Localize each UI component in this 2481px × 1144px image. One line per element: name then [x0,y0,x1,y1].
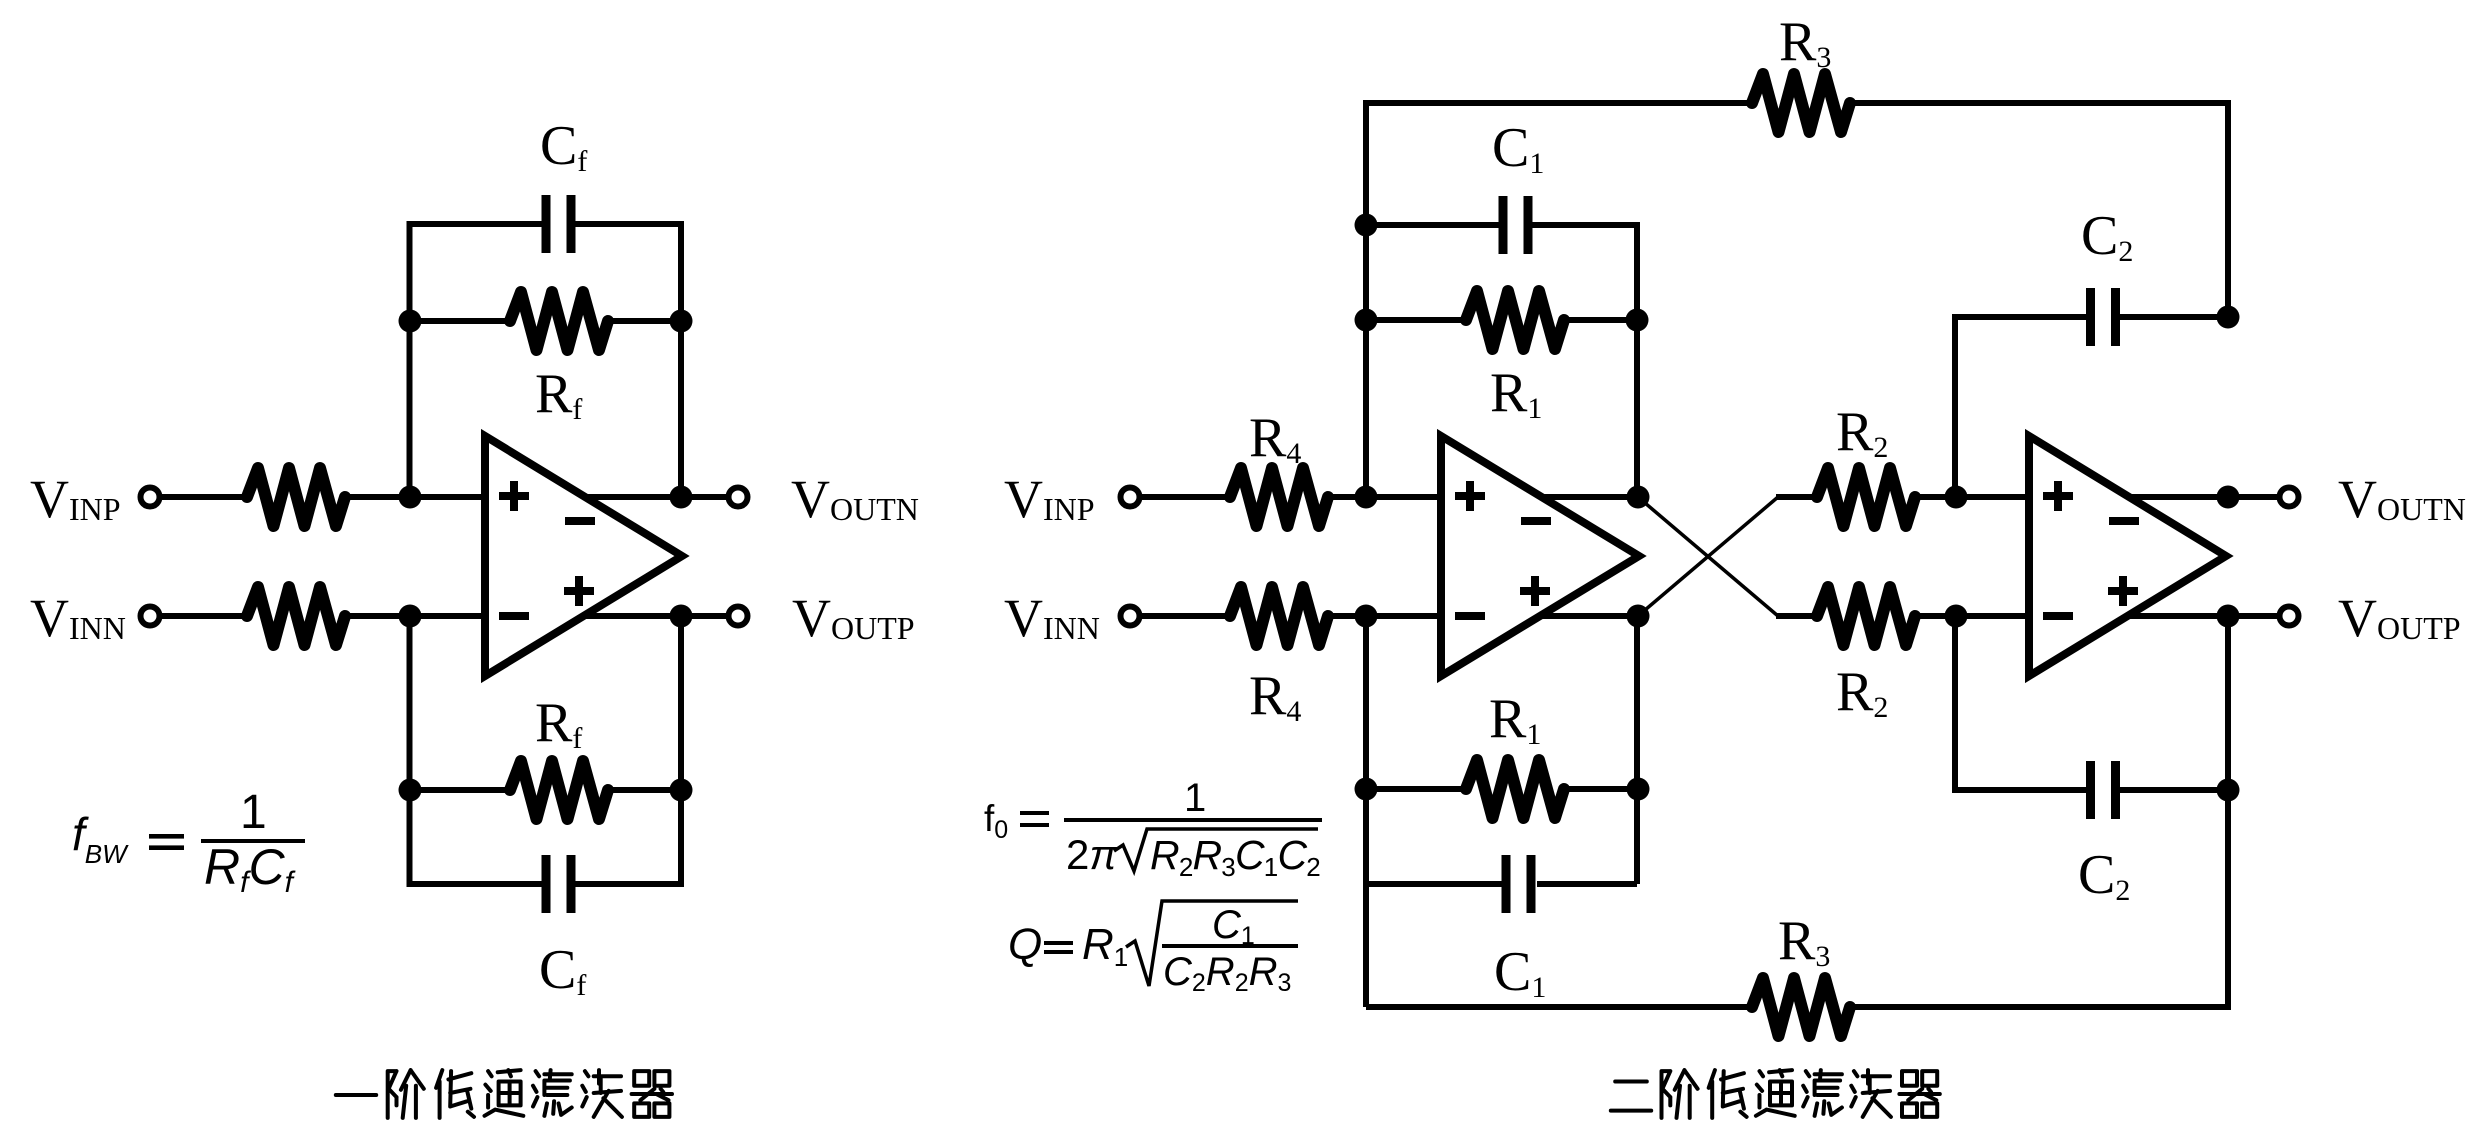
wire R4 top to op-amp [1328,494,1442,500]
op-amp U3 (right circuit second stage) [2029,436,2226,676]
formula f0 fraction bar [1064,818,1322,822]
terminal VOUTN (left) [729,488,748,507]
node input N junction [399,605,422,628]
plus output U1 [564,576,594,606]
capacitor Cf (top) [542,195,551,253]
wire VINN input (left circuit) [161,613,247,619]
formula fBW fraction bar [201,839,305,843]
svg-text:C2R2R3: C2R2R3 [1163,950,1291,997]
wire R2 top row [1776,494,1819,500]
plus output U3 [2108,576,2138,606]
wire U1 output N [583,494,727,500]
wire top feedback loop left/right verticals and cap row [410,224,543,497]
wire input P to op-amp [345,494,486,500]
node R4 top junction [1355,486,1378,509]
wire input N to op-amp [345,613,486,619]
node R1 top left [1355,309,1378,332]
capacitor C1 top [1499,196,1508,254]
plus output U2 [1520,576,1550,606]
wire R3 top loop [1366,103,1752,225]
op-amp U1 (left circuit) [485,436,682,676]
resistor R1 top [1466,291,1564,349]
node R1 top right [1626,309,1649,332]
node Rf top left [399,310,422,333]
node R2 top right [1945,486,1968,509]
resistor R2 top [1817,468,1915,526]
wire bottom feedback resistor row [410,787,513,793]
wire U3 output P [2126,613,2279,619]
terminal VINP (right) [1121,488,1140,507]
node R1 bottom left [1355,778,1378,801]
node R2 bottom right [1945,605,1968,628]
op-amp U2 (right circuit first stage) [1441,436,1639,676]
svg-text:2π: 2π [1066,831,1118,878]
resistor R4 bottom [1230,587,1328,645]
minus output U1 [565,517,595,525]
resistor R3 top [1752,74,1850,132]
formula Q fraction bar [1162,944,1298,948]
wire VINN input (right) [1141,613,1230,619]
plus input U3 [2043,481,2073,511]
svg-text:1: 1 [1184,776,1206,820]
node output P junction [670,605,693,628]
wire C1 top row [1366,222,1499,228]
terminal VOUTN (right) [2280,488,2299,507]
node output N junction [670,486,693,509]
node U3 output P [2217,605,2240,628]
caption second-order low-pass filter (CJK) [1611,1082,1651,1111]
resistor input P (left circuit) [247,468,345,526]
resistor R3 bottom [1752,978,1850,1036]
wire U3 output N [2127,494,2279,500]
resistor input N (left circuit) [247,587,345,645]
minus output U2 [1521,517,1551,525]
terminal VINN (right) [1121,607,1140,626]
wire left vertical first stage lower [1363,616,1369,1007]
wire R3 bottom loop [1366,1004,1752,1010]
resistor R4 top [1230,468,1328,526]
wire R1 top row [1366,317,1468,323]
wire R2 bottom row [1776,613,1819,619]
terminal VINP [141,488,160,507]
plus input U1 [499,481,529,511]
svg-text:RfCf: RfCf [204,839,296,899]
svg-text:Q: Q [1008,920,1042,969]
capacitor C2 bottom [2086,761,2095,819]
wire C2 bottom loop [1955,616,2091,790]
wire U2 output P stub [1538,613,1638,619]
node R4 bottom junction [1355,605,1378,628]
resistor Rf (bottom) [510,761,608,819]
svg-text:R2R3C1C2: R2R3C1C2 [1150,832,1320,882]
formula f0 equals sign [1020,811,1049,815]
node R1 bottom right [1627,778,1650,801]
wire cross diagonal N-to-lower [1638,497,1778,616]
wire R4 bottom to op-amp [1328,613,1442,619]
wire VINP input (left circuit) [161,494,247,500]
capacitor C2 top [2086,288,2095,346]
wire bottom feedback loop verticals and cap row [410,616,543,884]
node U2 output P [1627,605,1650,628]
node Rf bottom right [670,779,693,802]
wire U1 output P [582,613,727,619]
node C2 bottom right [2217,779,2240,802]
node U2 output N [1627,486,1650,509]
terminal VINN [141,607,160,626]
caption first-order low-pass filter (CJK) [336,1093,376,1097]
resistor R2 bottom [1817,587,1915,645]
wire R1 bottom row [1366,786,1468,792]
node Rf bottom left [399,779,422,802]
wire cross diagonal P-to-upper [1638,497,1778,616]
wire VINP input (right) [1141,494,1230,500]
resistor Rf (top) [510,292,608,350]
formula f0 radical [1114,829,1318,871]
wire C1 bottom row [1366,881,1506,887]
wire top feedback resistor row [410,318,513,324]
node input P junction [399,486,422,509]
capacitor Cf (bottom) [542,855,551,913]
formula fBW equals sign [149,834,184,839]
formula Q equals sign [1044,941,1073,945]
node Rf top right [670,310,693,333]
formula Q radical [1126,901,1298,986]
node C2 top right [2217,306,2240,329]
resistor R1 bottom [1466,760,1564,818]
svg-text:1: 1 [240,786,267,839]
capacitor C1 bottom [1502,855,1511,913]
terminal VOUTP (right) [2280,607,2299,626]
wire left vertical first stage [1363,225,1369,497]
minus output U3 [2109,517,2139,525]
node U3 output N [2217,486,2240,509]
wire U2 output N stub [1539,494,1638,500]
plus input U2 [1455,481,1485,511]
wire C2 top loop [1955,317,2091,497]
minus input U2 [1455,612,1485,620]
wire right vertical first stage lower [1634,616,1640,884]
minus input U1 [499,612,529,620]
terminal VOUTP (left) [729,607,748,626]
minus input U3 [2043,612,2073,620]
node C1 top left [1355,214,1378,237]
